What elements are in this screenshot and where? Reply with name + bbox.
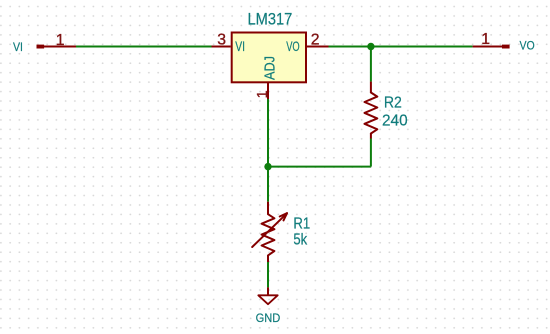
svg-text:VI: VI	[13, 40, 23, 54]
svg-text:GND: GND	[256, 311, 281, 325]
svg-text:ADJ: ADJ	[262, 56, 279, 80]
svg-text:R1: R1	[293, 216, 310, 233]
svg-text:LM317: LM317	[248, 11, 293, 29]
svg-text:3: 3	[217, 31, 226, 48]
svg-text:2: 2	[311, 31, 320, 48]
svg-text:240: 240	[382, 113, 408, 130]
svg-text:VO: VO	[520, 38, 535, 52]
svg-text:1: 1	[56, 32, 65, 49]
svg-text:5k: 5k	[293, 232, 307, 249]
svg-text:1: 1	[255, 90, 271, 98]
svg-text:VO: VO	[286, 39, 300, 54]
svg-text:R2: R2	[384, 94, 402, 111]
svg-text:1: 1	[481, 31, 490, 48]
svg-text:VI: VI	[235, 39, 245, 54]
